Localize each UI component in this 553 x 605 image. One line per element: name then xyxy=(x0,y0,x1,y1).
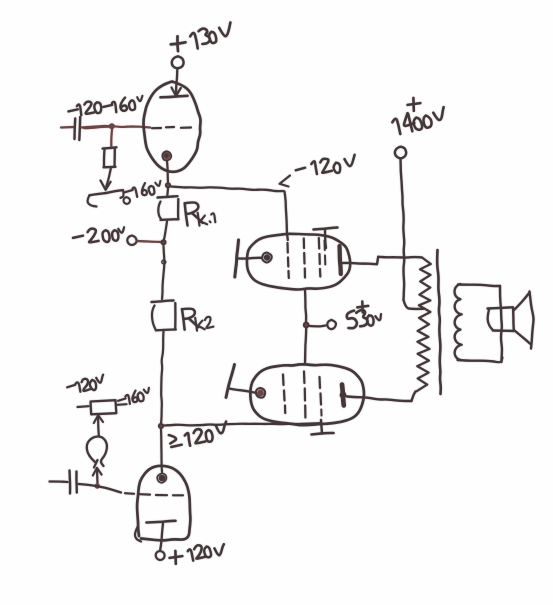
label -120 -160V xyxy=(68,109,77,111)
speaker magnet box xyxy=(488,307,513,308)
wire to output grid (-120V line) xyxy=(171,187,284,192)
label +120V (bottom) xyxy=(174,551,177,564)
triode V2 envelope (dome) xyxy=(137,466,190,541)
+130V supply label xyxy=(176,36,179,51)
label -160V (small, lower left) xyxy=(118,399,125,401)
wire cathode to junction xyxy=(167,161,168,184)
blip on cathode wire xyxy=(162,260,166,264)
O2 top stem from +530V node xyxy=(305,328,306,364)
node junction grid V1 xyxy=(109,123,115,129)
pot body oval xyxy=(87,436,107,466)
terminal circle +120V xyxy=(156,551,165,560)
V1 cathode xyxy=(164,153,170,159)
label +530V xyxy=(361,302,364,313)
wire junction to Rk1 xyxy=(166,189,169,197)
terminal circle +1400V xyxy=(395,147,406,159)
arrow marker for -120V xyxy=(280,176,291,187)
wire bar to cathode xyxy=(238,257,262,260)
resistor R1 (grid leak) xyxy=(103,147,117,148)
node at C2 output xyxy=(95,483,100,488)
wire -200V to junction xyxy=(138,241,163,242)
transformer primary winding (zigzag) xyxy=(417,258,431,392)
+1400V label xyxy=(412,98,415,111)
O1 beam plate ground T xyxy=(314,228,338,230)
secondary bottom wire xyxy=(458,360,495,362)
O2 ground T below xyxy=(321,420,322,434)
wire junction to V1 grid (solid then dashed inside tube) xyxy=(114,126,150,127)
O1 bottom stem to +530V node xyxy=(305,290,306,323)
long wire Rk2 down to bottom junction xyxy=(161,332,164,425)
V2 bottom-left hook xyxy=(135,527,141,542)
V1 plate bar xyxy=(161,96,188,98)
wire C2 to V2 grid (dashes into tube) xyxy=(79,484,122,493)
O1 grid3 dashed pair xyxy=(318,238,321,249)
O1 grid1 dashed (from -120V) xyxy=(286,243,288,253)
O2 cathode dot xyxy=(257,390,264,397)
resistor Rk2 xyxy=(152,301,174,303)
arrow up to R2 (wiper) xyxy=(97,418,100,436)
+1400V wire down to transformer centre tap xyxy=(401,159,405,301)
O2 cathode terminal bar xyxy=(226,365,235,398)
secondary top wire xyxy=(458,285,500,287)
O1 grid2 dashed xyxy=(303,239,305,249)
wire bar to cathode xyxy=(229,389,256,393)
wire +130V to plate with arrowhead xyxy=(176,69,177,95)
wire input coupling top-left xyxy=(61,126,74,129)
wire junction down to R1 xyxy=(110,130,113,148)
label -120V (small, lower left) xyxy=(67,385,75,388)
V2 grid-top node dot xyxy=(159,475,166,482)
O2 grid3 dashed xyxy=(318,377,321,388)
O2 plate bar (thick) xyxy=(342,385,344,406)
O2 grid2 dashed (center line) xyxy=(303,372,306,384)
wire to +530V terminal xyxy=(310,324,326,327)
corner and vertical down to O1 grid xyxy=(285,192,288,241)
O1 cathode terminal bar xyxy=(235,240,239,277)
resistor Rk1 xyxy=(158,196,178,197)
speaker cone xyxy=(514,293,530,311)
wire junction down to Rk2 xyxy=(162,246,164,299)
arrow down from R1 to pot wiper xyxy=(106,169,111,187)
node bottom junction xyxy=(158,423,164,429)
pentode O2 envelope xyxy=(250,364,364,425)
label Rk1 xyxy=(185,203,188,225)
terminal circle +130V xyxy=(172,56,184,68)
triode V1 envelope xyxy=(144,82,201,172)
potentiometer / -160V rail bar xyxy=(90,190,124,195)
O2 plate wire to transformer bottom xyxy=(347,397,412,402)
label -160V (upper small) xyxy=(125,190,133,192)
O1 plate wire to transformer top xyxy=(343,263,377,264)
terminal circle +530V xyxy=(327,320,336,329)
O1 plate bar xyxy=(340,246,341,274)
capacitor C2 xyxy=(68,471,71,494)
terminal circle -160V xyxy=(124,197,131,204)
transformer secondary winding (scallops) xyxy=(455,284,462,360)
O1 cathode dot xyxy=(264,254,270,260)
O2 grid1 dashed xyxy=(282,375,285,386)
wire C1 to grid junction xyxy=(82,126,113,127)
transformer core xyxy=(437,250,441,394)
wire junction right to ground stem under O2 xyxy=(164,423,320,425)
label >=120V xyxy=(169,435,176,443)
node cathode junction V1 xyxy=(165,182,171,188)
V2 plate xyxy=(147,521,176,523)
arrow up from cap node to pot xyxy=(96,470,99,484)
wire junction down to V2 grid-top xyxy=(161,430,162,473)
resistor R2 horizontal with leads xyxy=(78,405,89,408)
terminal circle -200V xyxy=(127,236,136,245)
node +530V junction xyxy=(303,322,310,329)
label Rk2 xyxy=(182,309,185,329)
label -200V xyxy=(73,236,83,238)
node junction below Rk1 xyxy=(160,239,166,245)
label -120V (top right) xyxy=(296,168,305,171)
pentode O1 envelope xyxy=(247,234,350,290)
wire into C2 xyxy=(50,480,68,483)
wire Rk1 bottom to junction xyxy=(164,222,167,241)
secondary right vertical xyxy=(500,286,502,362)
capacitor C1 xyxy=(73,119,76,140)
